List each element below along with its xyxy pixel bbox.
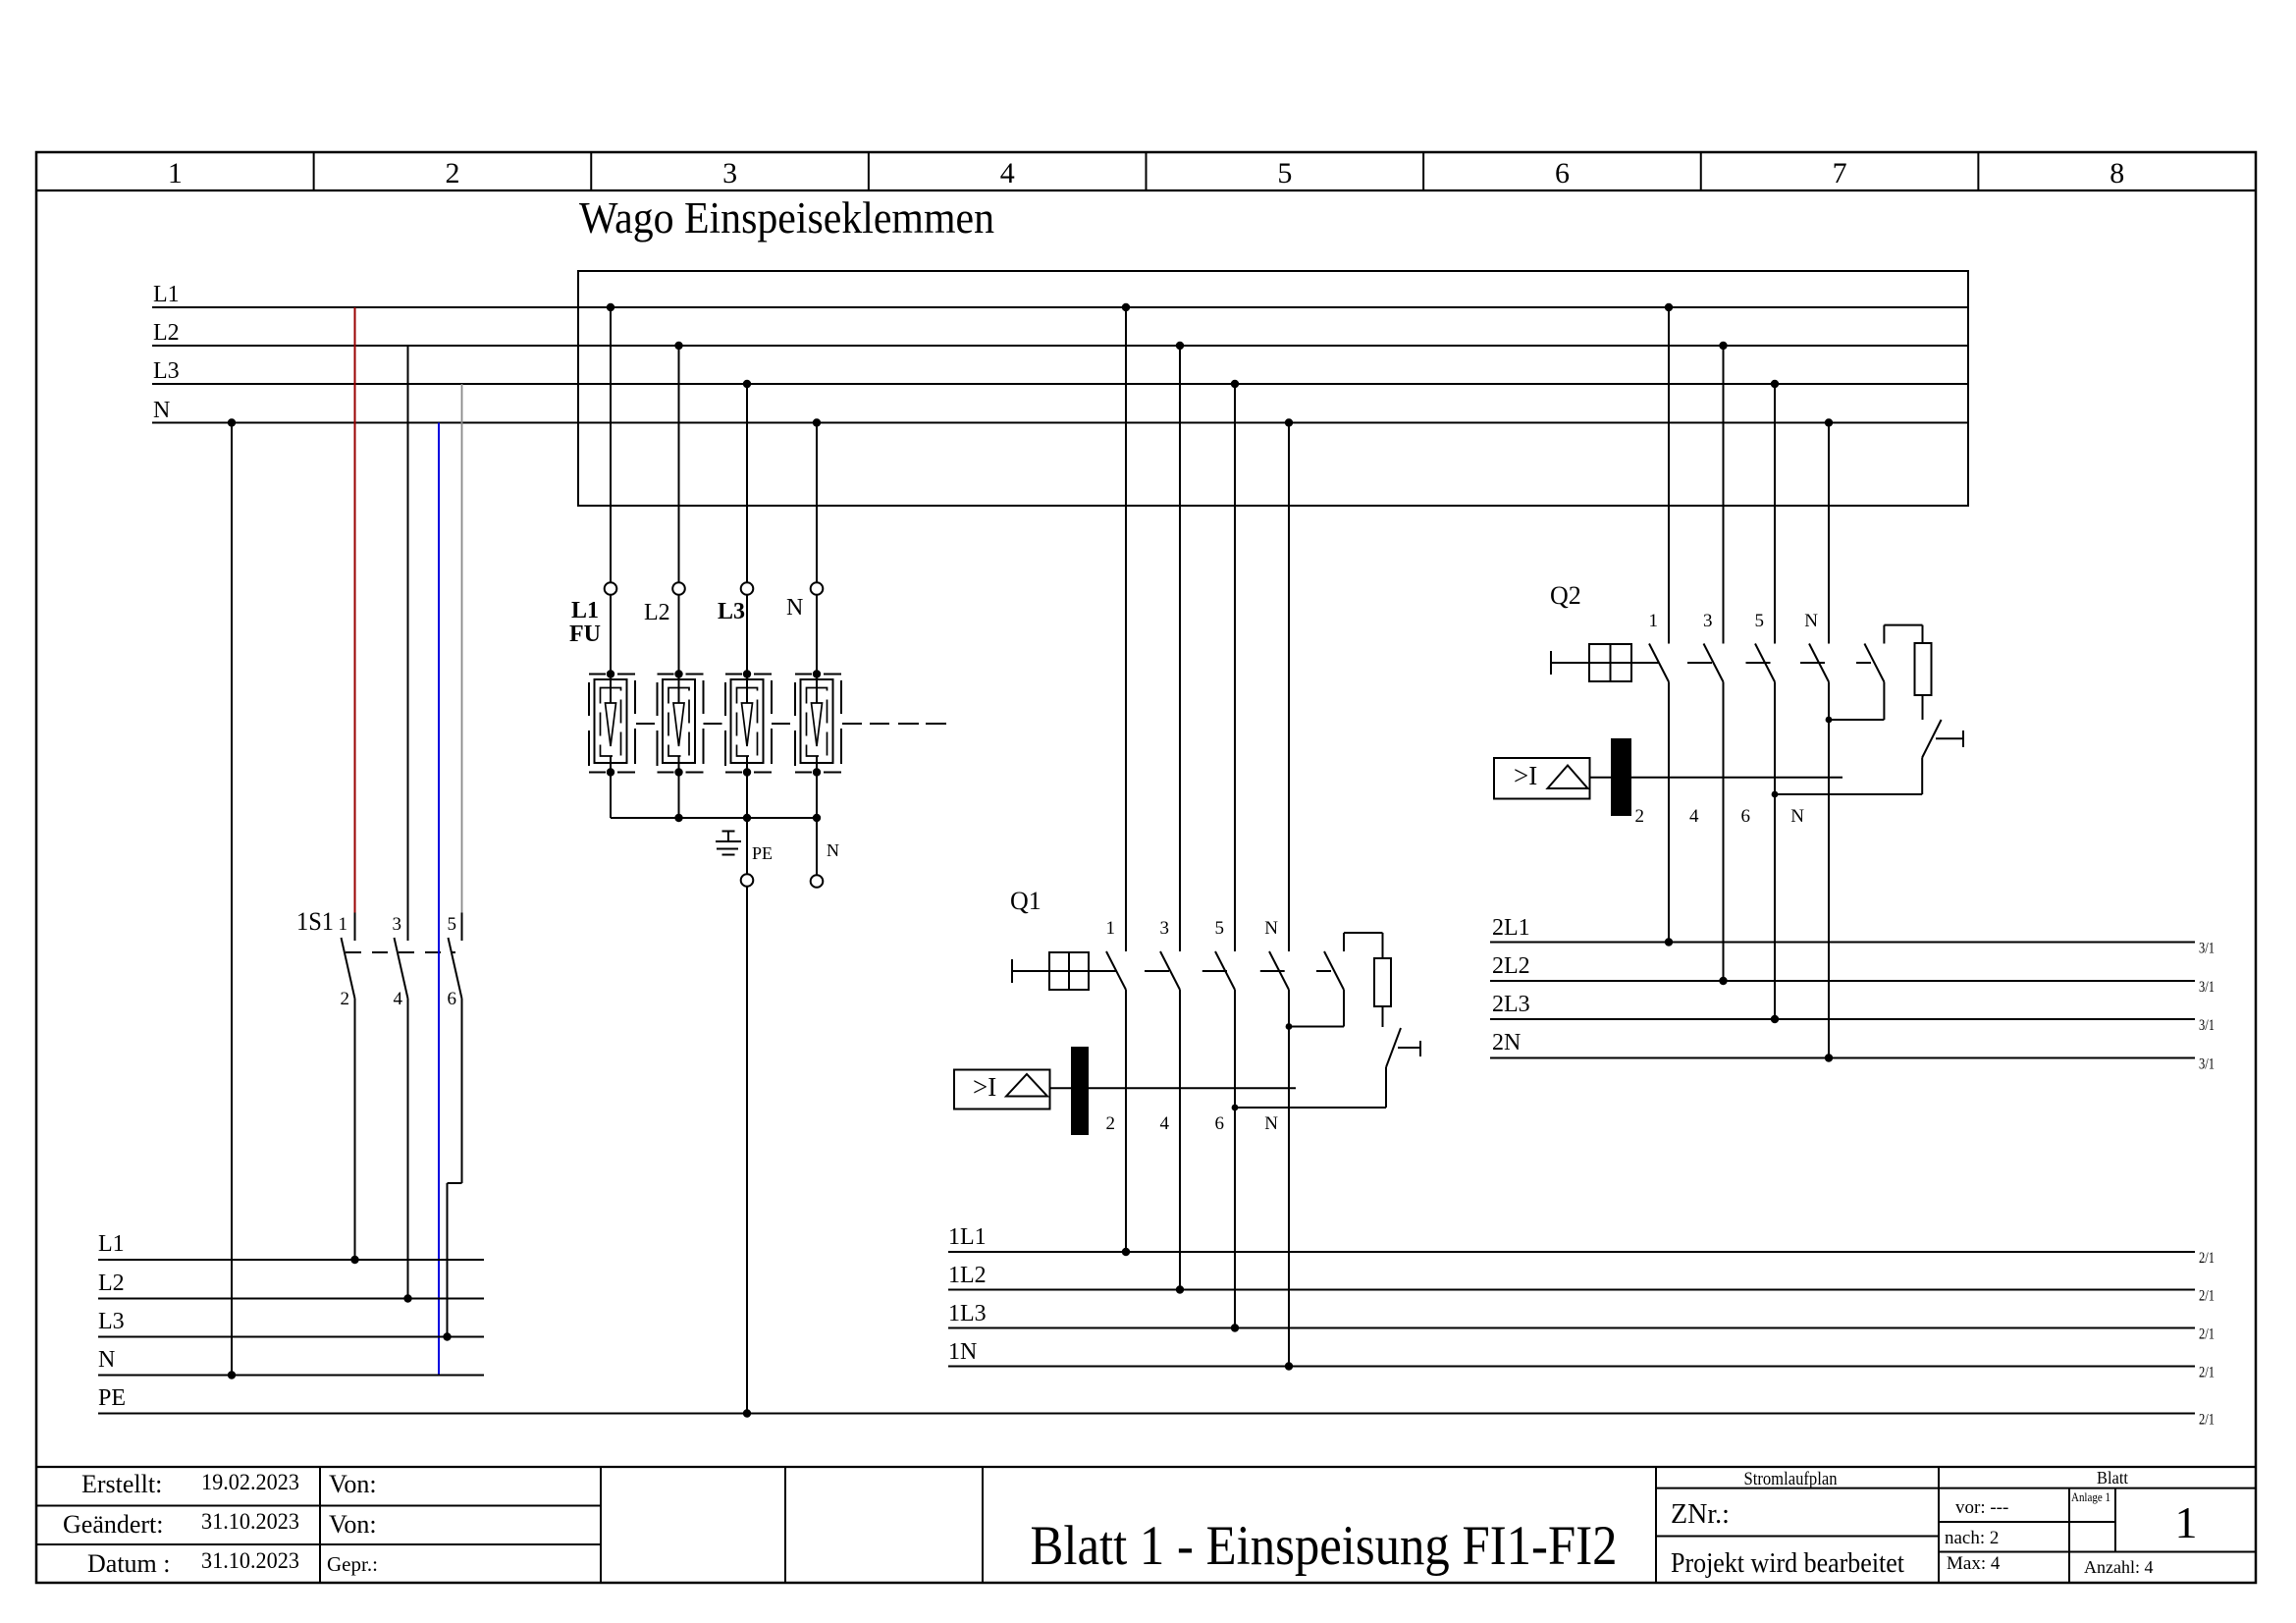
svg-text:N: N (827, 840, 839, 860)
wire Q2 pole 5 input (1774, 384, 1776, 644)
node 1L2 junction (1176, 1285, 1184, 1293)
svg-text:2L1: 2L1 (1492, 915, 1530, 941)
node fuse L2 top junction (674, 670, 682, 677)
svg-text:N: N (1264, 1113, 1278, 1134)
svg-text:6: 6 (1215, 1113, 1225, 1134)
node PE bus junction 3 (743, 814, 751, 822)
svg-text:1: 1 (339, 914, 348, 935)
contact Q1 test (1324, 951, 1344, 990)
svg-text:L3: L3 (718, 599, 745, 624)
svg-text:31.10.2023: 31.10.2023 (201, 1548, 299, 1573)
svg-text:3/1: 3/1 (2199, 979, 2215, 996)
node N-FU junction (813, 418, 821, 426)
svg-text:N: N (153, 398, 170, 423)
svg-text:L3: L3 (153, 358, 180, 384)
fuse holder dashed box N (795, 674, 812, 676)
wire N stub under fuses (816, 818, 818, 875)
actuator Q2 coupling dashes (1687, 662, 1712, 664)
svg-text:2L3: 2L3 (1492, 992, 1530, 1017)
wire Q1 test contact top (1343, 933, 1345, 951)
node 2N junction (1825, 1054, 1833, 1061)
svg-text:Anzahl: 4: Anzahl: 4 (2084, 1557, 2153, 1577)
svg-text:31.10.2023: 31.10.2023 (201, 1509, 299, 1534)
fuse holder dashed box L3 (725, 674, 742, 676)
terminal plug L1 top (605, 582, 617, 595)
wire fuse N to PE bus (816, 773, 818, 819)
wire Q2 pole N output (1828, 682, 1830, 1058)
svg-text:Anlage 1: Anlage 1 (2071, 1489, 2110, 1504)
svg-text:Blatt: Blatt (2097, 1468, 2128, 1488)
wire Q2 pole N input (1828, 423, 1830, 644)
node fuse N top junction (813, 670, 821, 677)
svg-text:1S1: 1S1 (296, 907, 334, 936)
svg-text:4: 4 (1000, 157, 1015, 189)
contact Q1 pole 3 (1160, 951, 1180, 990)
svg-text:1: 1 (1649, 611, 1659, 631)
node L3 bottom junction (443, 1332, 451, 1340)
sensor Q1 core bar (1071, 1047, 1089, 1135)
svg-text:Gepr.:: Gepr.: (327, 1552, 378, 1576)
switch 1S1 pole 1-2 (354, 913, 356, 942)
node N-Q2 junction (1825, 418, 1833, 426)
wire Q1 pole 5 input (1234, 384, 1236, 951)
actuator Q1 handle-link (1011, 959, 1013, 983)
contact Q1 pole 5 (1215, 951, 1235, 990)
svg-text:2L2: 2L2 (1492, 953, 1530, 979)
node Q2 test to pole6 (1772, 791, 1779, 798)
svg-text:1L1: 1L1 (948, 1224, 987, 1250)
svg-text:3: 3 (1703, 611, 1713, 631)
contact Q2 test (1864, 644, 1884, 682)
svg-text:Projekt wird bearbeitet: Projekt wird bearbeitet (1671, 1548, 1904, 1579)
node Q2 test to poleN (1826, 717, 1833, 724)
svg-text:4: 4 (1160, 1113, 1170, 1134)
svg-text:1: 1 (1106, 918, 1116, 939)
wire L3 bus (152, 383, 1968, 385)
wire 2L1 line (1490, 942, 2195, 944)
node 2L1 junction (1665, 938, 1673, 946)
contact Q1 pole 1 (1106, 951, 1126, 990)
sensor Q2 residual current box (1494, 758, 1590, 799)
surge arrester FU pole L2 (663, 679, 695, 763)
wire L3 drop to fuse FU (746, 384, 748, 582)
wire fuse L1 to PE bus (610, 773, 612, 819)
svg-text:1: 1 (168, 157, 183, 189)
pushbutton Q2 test handle (1936, 737, 1963, 739)
wire L3 conductor to 1S1 (gray) (461, 384, 463, 913)
svg-text:1L2: 1L2 (948, 1263, 987, 1288)
svg-text:2: 2 (445, 157, 459, 189)
svg-text:3: 3 (1160, 918, 1170, 939)
svg-text:FU: FU (569, 622, 601, 647)
wire fuse L3 to PE bus (746, 773, 748, 819)
fuse mechanical link dash line (636, 723, 655, 725)
node PE bus junction 2 (674, 814, 682, 822)
wire PE plug to PE line (746, 887, 748, 1414)
wire Q1 pole N output (1288, 990, 1290, 1367)
wire Q2 pole 3 input (1723, 346, 1725, 644)
wire L1 bottom line (98, 1259, 484, 1261)
svg-text:vor: ---: vor: --- (1955, 1497, 2008, 1518)
contact Q2 pole 3 (1704, 644, 1724, 682)
svg-text:2/1: 2/1 (2199, 1250, 2215, 1267)
terminal plug N top (811, 582, 824, 595)
svg-text:3: 3 (722, 157, 737, 189)
terminal plug L2 top (672, 582, 685, 595)
terminal plug N bottom (811, 875, 824, 888)
wire Q2 pole 2 output (1668, 682, 1670, 943)
node N-Q1 junction (1285, 418, 1293, 426)
wire L1 drop to fuse FU (610, 307, 612, 582)
pushbutton Q2 test contact (1922, 720, 1941, 758)
svg-text:Q2: Q2 (1550, 581, 1581, 610)
node N-link junction top (228, 418, 236, 426)
actuator Q2 handle-link (1550, 651, 1552, 675)
resistor Q2 test (1915, 643, 1932, 695)
node L1-FU junction (607, 303, 614, 311)
wire 1N line (948, 1366, 2195, 1368)
wire L2 drop to fuse FU (678, 346, 680, 582)
wire L2 bottom line (98, 1298, 484, 1300)
node L1-Q1 junction (1122, 303, 1130, 311)
svg-text:3/1: 3/1 (2199, 1056, 2215, 1073)
wire Q1 pole 1 input (1125, 307, 1127, 951)
svg-text:Blatt 1 - Einspeisung FI1-FI2: Blatt 1 - Einspeisung FI1-FI2 (1031, 1515, 1618, 1577)
wire N link vertical (231, 423, 233, 1376)
wire Q2 test contact top (1883, 625, 1885, 644)
surge arrester FU pole L3 (731, 679, 764, 763)
svg-text:>I: >I (1514, 761, 1537, 790)
node L2-Q1 junction (1176, 342, 1184, 350)
svg-text:L1: L1 (571, 598, 599, 623)
wire N plug to fuse (816, 595, 818, 675)
node N-link junction bottom (228, 1371, 236, 1379)
wire 2N line (1490, 1057, 2195, 1059)
wire Q1 pole N input (1288, 423, 1290, 952)
svg-text:nach: 2: nach: 2 (1945, 1528, 1999, 1548)
wire PE collector bus (611, 817, 817, 819)
terminal block Wago Einspeiseklemmen outline (578, 271, 1968, 506)
wire L3 plug to fuse (746, 595, 748, 675)
node PE line junction (743, 1409, 751, 1417)
wire 2L2 line (1490, 980, 2195, 982)
svg-text:PE: PE (98, 1385, 126, 1411)
wire 1L2 line (948, 1289, 2195, 1291)
contact Q1 pole N (1269, 951, 1289, 990)
wire 1L1 line (948, 1251, 2195, 1253)
node 1N junction (1285, 1362, 1293, 1370)
contact Q2 pole 1 (1649, 644, 1669, 682)
svg-text:Von:: Von: (329, 1470, 377, 1498)
svg-text:Q1: Q1 (1010, 887, 1041, 915)
node fuse L3 bottom junction (743, 768, 751, 776)
wire N bus (152, 422, 1968, 424)
svg-text:5: 5 (448, 914, 457, 935)
terminal plug L3 top (741, 582, 754, 595)
svg-text:7: 7 (1833, 157, 1847, 189)
svg-text:5: 5 (1755, 611, 1765, 631)
svg-text:2: 2 (341, 989, 350, 1009)
svg-text:Wago Einspeiseklemmen: Wago Einspeiseklemmen (579, 193, 994, 243)
svg-text:L1: L1 (98, 1231, 125, 1257)
terminal plug PE (741, 874, 754, 887)
svg-text:N: N (98, 1347, 115, 1373)
node L2 bottom junction (403, 1294, 411, 1302)
contact Q2 pole N (1809, 644, 1829, 682)
svg-text:>I: >I (973, 1072, 996, 1102)
node Q1 test to poleN (1286, 1023, 1293, 1030)
node fuse L2 bottom junction (674, 768, 682, 776)
wire Q1 test return lower (1385, 1067, 1387, 1108)
svg-text:L1: L1 (153, 282, 180, 307)
actuator Q1 coupling dashes (1145, 970, 1169, 972)
wire 1S1 pin2 to L1 bottom (354, 999, 356, 1260)
wire Q1 test below resistor (1382, 1006, 1384, 1027)
wire 1S1 pin4 to L2 bottom (407, 999, 409, 1299)
wire 2L3 line (1490, 1018, 2195, 1020)
svg-text:N: N (1264, 918, 1278, 939)
sensor Q2 core bar (1611, 738, 1631, 816)
contact Q2 pole 5 (1755, 644, 1775, 682)
wire Q1 pole 6 output (1234, 990, 1236, 1328)
svg-text:L3: L3 (98, 1309, 125, 1334)
resistor Q1 test (1374, 958, 1391, 1006)
svg-text:8: 8 (2109, 157, 2124, 189)
wire 1L3 line (948, 1327, 2195, 1329)
wire Q1 pole 2 output (1125, 990, 1127, 1252)
wire PE drop (746, 818, 748, 874)
svg-text:3/1: 3/1 (2199, 1017, 2215, 1034)
svg-text:Max: 4: Max: 4 (1947, 1553, 2001, 1574)
fuse holder dashed box L1 (589, 674, 606, 676)
surge arrester FU pole N (801, 679, 833, 763)
svg-text:6: 6 (1555, 157, 1570, 189)
node fuse N bottom junction (813, 768, 821, 776)
wire Q2 pole 1 input (1668, 307, 1670, 644)
node Q1 test to pole6 (1232, 1105, 1239, 1111)
svg-text:N: N (1804, 611, 1818, 631)
wire L2 plug to fuse (678, 595, 680, 675)
svg-text:4: 4 (394, 989, 403, 1009)
wire L2 bus (152, 345, 1968, 347)
wire Q2 test return upper (1883, 682, 1885, 721)
node fuse L1 top junction (607, 670, 614, 677)
svg-text:L2: L2 (98, 1271, 125, 1296)
svg-text:N: N (786, 595, 803, 621)
svg-text:Stromlaufplan: Stromlaufplan (1744, 1469, 1838, 1489)
wire Q1 test return upper (1343, 990, 1345, 1027)
svg-text:2/1: 2/1 (2199, 1365, 2215, 1381)
wire N drop to fuse FU (816, 423, 818, 583)
svg-text:2N: 2N (1492, 1030, 1521, 1055)
svg-text:3: 3 (393, 914, 402, 935)
svg-text:6: 6 (1741, 806, 1751, 827)
node L3-Q1 junction (1231, 380, 1239, 388)
node 1L1 junction (1122, 1248, 1130, 1256)
svg-text:Von:: Von: (329, 1510, 377, 1539)
ground symbol PE (722, 831, 735, 833)
wire L1 conductor to 1S1 (red) (354, 307, 356, 913)
node 2L2 junction (1719, 977, 1727, 985)
svg-text:1L3: 1L3 (948, 1301, 987, 1326)
svg-text:3/1: 3/1 (2199, 941, 2215, 957)
wire N bottom line (98, 1375, 484, 1377)
svg-text:2/1: 2/1 (2199, 1326, 2215, 1343)
switch 1S1 pole 5-6 (461, 913, 463, 942)
sensor Q2 link (1590, 777, 1612, 779)
svg-text:5: 5 (1277, 157, 1292, 189)
node PE bus junction N (813, 814, 821, 822)
wire L3 bottom line (98, 1336, 484, 1338)
wire PE line (98, 1413, 2195, 1415)
node L3-Q2 junction (1771, 380, 1779, 388)
wire Q2 test below resistor (1922, 695, 1924, 720)
node fuse L1 bottom junction (607, 768, 614, 776)
node fuse L3 top junction (743, 670, 751, 677)
svg-text:N: N (1790, 806, 1804, 827)
switch 1S1 coupling dash line (346, 951, 455, 953)
pushbutton Q1 test handle (1398, 1047, 1420, 1049)
wire Q1 pole 3 input (1179, 346, 1181, 951)
node L2-Q2 junction (1719, 342, 1727, 350)
svg-text:PE: PE (752, 843, 773, 863)
fuse holder dashed box L2 (658, 674, 674, 676)
svg-text:L2: L2 (153, 320, 180, 346)
svg-text:L2: L2 (644, 600, 670, 625)
svg-text:4: 4 (1689, 806, 1699, 827)
wire 1S1 pin6 to L3 bottom (461, 999, 463, 1183)
wire L2 conductor to 1S1 (407, 346, 409, 913)
wire fuse L2 to PE bus (678, 773, 680, 819)
svg-text:Datum :: Datum : (87, 1549, 171, 1578)
svg-text:2/1: 2/1 (2199, 1412, 2215, 1429)
wire L1 plug to fuse (610, 595, 612, 675)
svg-text:1N: 1N (948, 1339, 977, 1365)
node L2-FU junction (674, 342, 682, 350)
svg-text:Geändert:: Geändert: (63, 1510, 164, 1539)
sensor Q1 residual current box (954, 1070, 1050, 1109)
pushbutton Q1 test contact (1386, 1028, 1401, 1067)
wire Q2 test return lower (1921, 758, 1923, 795)
node 2L3 junction (1771, 1015, 1779, 1023)
svg-text:2: 2 (1106, 1113, 1116, 1134)
node L1 bottom junction (350, 1256, 358, 1264)
svg-text:5: 5 (1215, 918, 1225, 939)
wire Q2 pole 4 output (1723, 682, 1725, 982)
svg-text:ZNr.:: ZNr.: (1671, 1499, 1730, 1530)
wire Q2 pole 6 output (1774, 682, 1776, 1020)
wire N conductor (blue) (438, 423, 440, 1376)
wire Q1 pole 4 output (1179, 990, 1181, 1290)
wire L1 bus (152, 306, 1968, 308)
svg-text:19.02.2023: 19.02.2023 (201, 1470, 299, 1494)
switch 1S1 pole 3-4 (407, 913, 409, 942)
trip line Q2 (1631, 777, 1842, 779)
node L3-FU junction (743, 380, 751, 388)
svg-text:2/1: 2/1 (2199, 1288, 2215, 1305)
sensor Q1 link (1050, 1087, 1072, 1089)
node L1-Q2 junction (1665, 303, 1673, 311)
svg-text:6: 6 (448, 989, 457, 1009)
trip line Q1 (1089, 1087, 1296, 1089)
svg-text:Erstellt:: Erstellt: (81, 1470, 162, 1498)
surge arrester FU pole L1 (595, 679, 627, 763)
svg-text:1: 1 (2175, 1497, 2198, 1547)
node 1L3 junction (1231, 1324, 1239, 1331)
svg-text:2: 2 (1635, 806, 1645, 827)
